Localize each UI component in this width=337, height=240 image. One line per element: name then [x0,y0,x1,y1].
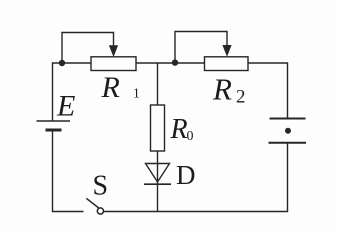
wire left rail upper (node A down to battery) [52,62,54,121]
svg-text:R: R [101,71,120,104]
rheostat R1 body [91,57,136,71]
svg-text:S: S [93,171,109,202]
wire bottom-left (corner to switch) [52,211,84,213]
wire bottom (switch to bottom-right corner) [104,211,289,213]
wire left rail lower (battery to bottom-left corner) [52,130,54,212]
wire right rail upper (to capacitor top plate) [287,62,289,118]
svg-text:2: 2 [236,87,246,108]
battery E negative plate (short thick) [46,129,62,132]
battery E positive plate (long) [37,120,71,122]
R1 wiper arrowhead [109,45,118,57]
R2 wiper arrowhead [222,45,231,57]
junction node B (middle dot, R2 wiper tap) [172,59,178,65]
wire diode to bottom wire [157,184,159,211]
resistor R0 body [151,105,165,151]
diode D triangle (anode) [146,164,170,183]
switch S contact circle [97,208,103,214]
wire right rail lower (capacitor bottom plate to bottom-right corner) [287,143,289,212]
switch S lever blade [86,198,98,208]
wire R1 right terminal to R2 left terminal [136,62,205,64]
svg-text:0: 0 [187,129,194,144]
R2 wiper connection wire loop [175,32,227,63]
charged particle between capacitor plates [285,128,291,134]
svg-text:E: E [56,90,75,123]
wire top-left (node A to R1 left terminal) [53,62,92,64]
capacitor C top plate [270,118,306,120]
diode D lead through triangle [157,164,159,185]
svg-text:1: 1 [133,86,140,101]
rheostat R2 body [205,57,249,71]
svg-text:R: R [170,114,188,145]
diode D cathode bar [144,183,171,185]
junction node A (left dot) [59,60,65,66]
wire middle branch upper (top wire T to R0) [157,63,159,105]
R1 wiper connection wire loop [62,33,114,64]
capacitor C bottom plate [269,142,307,144]
svg-text:D: D [176,160,196,190]
wire R0 to diode [157,151,159,164]
wire R2 right terminal to top-right corner [248,62,288,64]
svg-text:R: R [212,71,232,106]
